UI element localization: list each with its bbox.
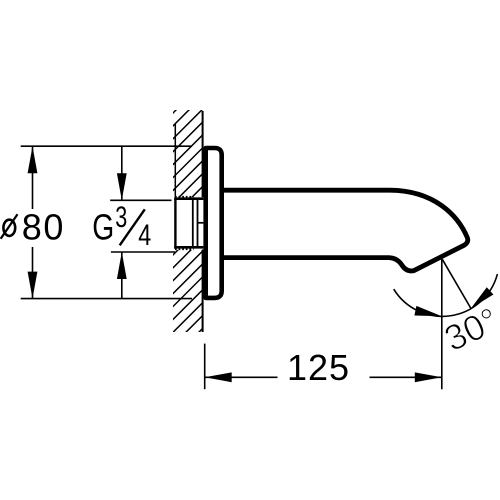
svg-text:4: 4: [138, 219, 151, 252]
svg-text:3: 3: [115, 201, 127, 234]
svg-text:30°: 30°: [438, 299, 500, 359]
svg-text:G: G: [92, 207, 114, 248]
svg-text:125: 125: [287, 347, 350, 388]
svg-text:80: 80: [22, 206, 65, 247]
